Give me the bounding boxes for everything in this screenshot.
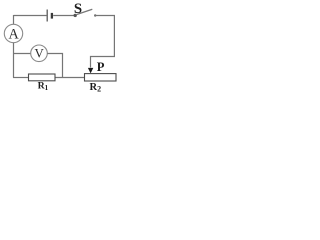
wire from top corner down to ammeter — [13, 15, 15, 24]
svg-text:R1: R1 — [38, 81, 49, 93]
svg-text:P: P — [97, 60, 105, 74]
slider arrow P (wiper) — [88, 68, 93, 74]
wire ammeter bottom down left side — [13, 43, 15, 78]
switch S1 blade (open) — [76, 9, 92, 15]
resistor R1 box — [29, 74, 56, 81]
voltmeter V1 circle — [31, 45, 48, 62]
svg-text:V: V — [34, 46, 44, 60]
ammeter A1 circle — [4, 24, 22, 42]
wire voltmeter branch left — [14, 53, 31, 55]
battery long plate (positive) — [46, 10, 48, 22]
wire top-left from corner to battery — [14, 15, 47, 17]
wire battery to switch pivot — [53, 15, 74, 17]
wire switch to top-right corner, down right side, left and down to slider — [91, 16, 115, 68]
wire bottom-left to resistor R1 — [13, 77, 29, 79]
battery short thick plate (negative) — [51, 13, 53, 19]
svg-text:R2: R2 — [90, 82, 102, 94]
wire rheostat R2 left to junction and resistor R1 — [55, 77, 85, 79]
switch S1 pivot dot — [74, 14, 77, 17]
svg-text:A: A — [8, 27, 19, 43]
switch right contact dot — [94, 14, 96, 16]
svg-text:S: S — [74, 1, 82, 17]
rheostat R2 box — [85, 74, 117, 81]
wire voltmeter right to corner and down — [47, 54, 62, 78]
